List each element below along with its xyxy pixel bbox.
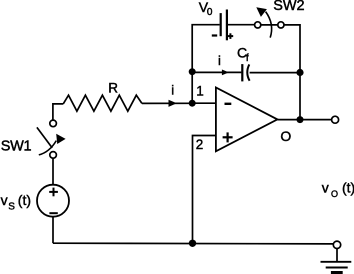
battery V0	[212, 10, 233, 41]
current arrow i (feedback)	[222, 70, 229, 76]
label i (feedback)	[218, 53, 221, 68]
wire	[192, 102, 216, 104]
node output junction	[297, 116, 304, 123]
wire bottom rail	[53, 242, 333, 245]
output wire	[277, 119, 331, 121]
svg-text:O: O	[331, 189, 338, 199]
svg-text:(t): (t)	[342, 180, 354, 196]
label R	[108, 81, 118, 96]
svg-text:0: 0	[207, 7, 213, 18]
label i (input)	[171, 82, 174, 97]
wire	[52, 158, 54, 185]
svg-text:f: f	[246, 53, 249, 64]
wire	[299, 72, 301, 119]
svg-text:v: v	[1, 192, 8, 208]
svg-text:O: O	[280, 128, 291, 144]
wire	[336, 249, 338, 262]
switch SW2	[255, 7, 284, 37]
op-amp minus marking	[225, 103, 232, 105]
ground	[321, 262, 352, 273]
wire	[228, 24, 255, 26]
node inverting input junction	[189, 100, 196, 107]
current arrow i (input)	[169, 100, 177, 107]
svg-text:SW1: SW1	[1, 139, 32, 155]
wire	[53, 104, 63, 120]
label SW2	[273, 0, 304, 14]
wire	[142, 102, 192, 104]
capacitor Cf	[242, 64, 249, 81]
wire	[284, 25, 300, 72]
svg-text:2: 2	[196, 137, 204, 152]
label Cf	[237, 45, 249, 65]
node feedback-right junction	[296, 69, 303, 76]
svg-text:v: v	[322, 180, 329, 196]
svg-text:i: i	[171, 82, 174, 97]
wire	[250, 72, 300, 74]
wire	[192, 25, 219, 72]
source vs	[37, 185, 69, 217]
label V0	[199, 0, 213, 18]
label O	[280, 128, 291, 144]
op-amp plus marking	[223, 132, 233, 142]
svg-text:S: S	[8, 201, 15, 212]
ground terminal	[333, 241, 340, 248]
op-amp U1	[216, 88, 278, 152]
svg-text:R: R	[108, 81, 118, 96]
svg-text:SW2: SW2	[273, 0, 304, 14]
node bottom junction	[189, 240, 196, 247]
label vs(t)	[1, 192, 31, 213]
svg-text:(t): (t)	[18, 192, 31, 208]
wire	[191, 72, 193, 104]
label pin 2	[196, 137, 204, 152]
resistor R	[63, 95, 142, 111]
wire	[52, 217, 54, 244]
output terminal	[332, 116, 339, 123]
svg-text:1: 1	[196, 84, 204, 99]
wire pin 2	[193, 136, 216, 244]
svg-text:i: i	[218, 53, 221, 68]
label vo(t)	[322, 180, 354, 200]
node feedback-left junction	[189, 68, 196, 75]
wire	[192, 71, 241, 73]
label pin 1	[196, 84, 204, 99]
switch SW1	[37, 120, 66, 158]
label SW1	[1, 139, 32, 155]
